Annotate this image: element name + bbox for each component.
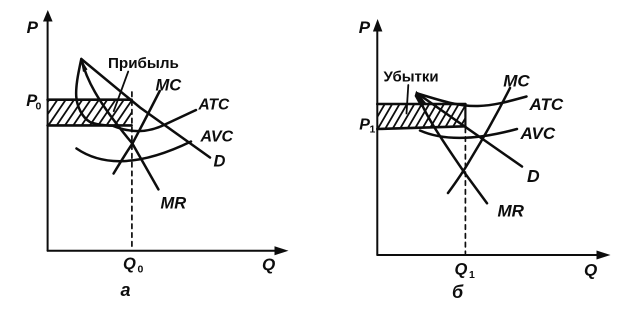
svg-text:1: 1 [469,269,475,281]
svg-text:Q: Q [123,255,136,273]
svg-text:MR: MR [498,202,525,221]
svg-text:P: P [359,18,371,37]
svg-text:0: 0 [36,101,42,113]
svg-text:AVC: AVC [520,124,556,143]
svg-text:MC: MC [156,77,183,95]
svg-text:Q: Q [584,261,597,280]
svg-text:Q: Q [455,261,468,279]
svg-text:P: P [27,18,39,37]
svg-text:ATC: ATC [529,95,564,114]
svg-text:D: D [527,166,540,186]
svg-text:Q: Q [262,255,275,274]
svg-text:MR: MR [161,195,187,213]
svg-text:ATC: ATC [198,97,231,114]
svg-text:а: а [121,280,131,300]
svg-text:б: б [452,282,464,302]
svg-text:Прибыль: Прибыль [108,55,179,72]
svg-text:MC: MC [503,72,530,91]
svg-text:AVC: AVC [200,129,234,146]
svg-text:Убытки: Убытки [384,69,439,86]
svg-text:0: 0 [138,264,144,276]
svg-text:1: 1 [370,124,376,136]
svg-text:D: D [214,153,226,171]
